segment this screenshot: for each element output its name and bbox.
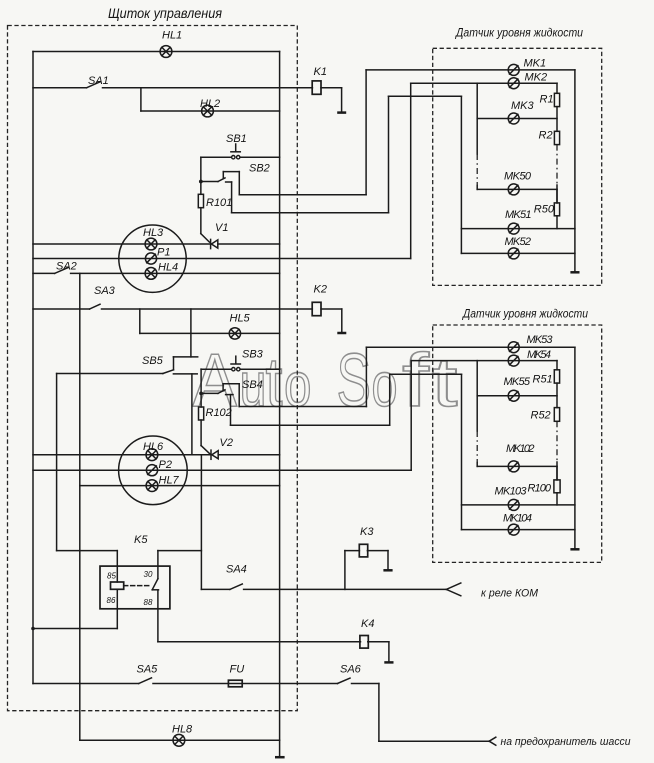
wire: R52 to MK102 row (dash-dot) (556, 421, 558, 480)
lamp MK51 (508, 223, 519, 234)
svg-text:SB2: SB2 (249, 162, 270, 174)
svg-text:o: o (372, 351, 398, 420)
svg-text:30: 30 (144, 570, 153, 579)
svg-text:P1: P1 (157, 247, 170, 259)
pushbutton SB1 (201, 144, 280, 159)
svg-text:MK102: MK102 (506, 443, 535, 455)
svg-text:Датчик уровня жидкости: Датчик уровня жидкости (454, 26, 583, 40)
svg-text:R2: R2 (539, 130, 553, 142)
svg-text:HL5: HL5 (230, 313, 251, 325)
svg-text:K2: K2 (314, 284, 327, 296)
wire: SA3 row to SB5 upper contact (190, 309, 192, 357)
svg-text:85: 85 (107, 572, 116, 581)
svg-text:HL7: HL7 (159, 475, 180, 487)
ground (sensor 1) (570, 271, 579, 274)
lamp HL2 (202, 105, 214, 117)
wire: SB2 upper contact to sensor 1 (MK1) (239, 70, 575, 195)
instrument cluster circle 2 (119, 436, 188, 505)
svg-text:f: f (402, 338, 429, 422)
lamp MK102 (508, 461, 519, 472)
diode V2 (201, 446, 218, 460)
svg-text:88: 88 (144, 598, 153, 607)
lamp MK104 (508, 524, 519, 535)
svg-text:HL3: HL3 (143, 227, 164, 239)
svg-text:R50: R50 (534, 204, 555, 216)
wire: MK55 row (477, 395, 557, 397)
ground (K4) (384, 661, 393, 664)
svg-text:86: 86 (107, 596, 116, 605)
svg-text:Датчик уровня жидкости: Датчик уровня жидкости (461, 307, 588, 321)
switch SA3 (33, 304, 312, 309)
lamp MK1 (508, 64, 519, 75)
wire: HL2 branch (141, 88, 280, 111)
changeover pushbutton SB5 (57, 357, 198, 374)
pushbutton SB3 (201, 356, 280, 371)
resistor R1 (554, 83, 559, 131)
dashed enclosure: Датчик уровня жидкости 2 (433, 325, 602, 562)
svg-text:SA2: SA2 (56, 261, 77, 273)
lamp MK2 (508, 78, 519, 89)
wire: sensor 2 left rail (476, 361, 478, 467)
svg-text:K3: K3 (360, 526, 374, 538)
svg-text:SB1: SB1 (226, 133, 247, 145)
svg-text:R100: R100 (528, 483, 552, 495)
wire: SA2 vertical (to HL7 and HL8) (79, 273, 81, 740)
lamp HL8 (173, 734, 185, 746)
wire: MK104 row (462, 529, 575, 531)
fuse FU (228, 680, 242, 687)
wire: MK103 row (462, 504, 575, 506)
ground (bottom of right bus) (275, 756, 285, 759)
lamp MK52 (508, 248, 519, 259)
svg-text:MK104: MK104 (503, 513, 532, 525)
wire: MK52 row (461, 252, 575, 254)
wire: MK102 row (477, 465, 557, 467)
svg-text:SA1: SA1 (88, 75, 109, 87)
svg-text:MK51: MK51 (505, 209, 532, 221)
wire: HL1 row (33, 51, 280, 53)
wire: SB4 lower contact to sensor 2 (MK103/MK104) (231, 374, 462, 529)
dashed enclosure: Датчик уровня жидкости 1 (433, 48, 602, 285)
wire: SB4 upper contact to sensor 2 (MK53) (239, 347, 575, 406)
lamp MK53 (508, 342, 519, 353)
wire: SB3 to SB4 vertical (200, 369, 202, 393)
svg-text:R52: R52 (531, 410, 551, 422)
svg-text:SA4: SA4 (226, 563, 247, 575)
changeover pushbutton SB4 (199, 384, 239, 425)
resistor R51 (554, 361, 559, 408)
wire: HL7 row (80, 485, 280, 487)
svg-text:P2: P2 (159, 459, 172, 471)
svg-text:MK55: MK55 (504, 376, 531, 388)
ground (K1) (337, 111, 346, 114)
instrument cluster circle 1 (119, 225, 186, 292)
svg-text:MK2: MK2 (525, 72, 548, 84)
wire: MK51 row (461, 228, 575, 230)
wire: SB2 lower contact to sensor 1 (MK51/MK52) (232, 96, 462, 253)
watermark AutoSoft (193, 338, 458, 422)
lamp HL7 (146, 480, 158, 492)
relay K5 dashed link (124, 585, 151, 587)
resistor R52 (554, 408, 559, 422)
svg-text:на предохранитель шасси: на предохранитель шасси (501, 736, 631, 748)
wire: R2 to MK50 row (dash-dot) (556, 145, 558, 203)
svg-text:MK54: MK54 (527, 349, 551, 361)
wire: HL8 row (80, 739, 280, 741)
gauge P2 (146, 465, 157, 476)
svg-text:t: t (432, 343, 458, 421)
resistor R2 (554, 131, 559, 144)
wire: HL3 row (33, 243, 280, 245)
svg-text:R51: R51 (533, 374, 553, 386)
wire: P1 row (to sensor 1 MK2) (33, 83, 557, 258)
svg-text:SA5: SA5 (137, 664, 159, 676)
svg-text:K5: K5 (134, 534, 148, 546)
svg-text:R1: R1 (540, 94, 554, 106)
relay coil K3 (345, 544, 388, 589)
svg-text:R101: R101 (206, 197, 232, 209)
lamp MK50 (508, 184, 519, 195)
svg-text:SB3: SB3 (242, 349, 264, 361)
lamp MK3 (508, 113, 519, 124)
svg-text:MK53: MK53 (527, 334, 554, 346)
relay coil K1 (312, 81, 341, 112)
switch SA1 (33, 82, 312, 88)
svg-text:MK3: MK3 (511, 100, 535, 112)
svg-text:V1: V1 (215, 222, 228, 234)
wire: HL5 branch (140, 309, 280, 333)
svg-text:FU: FU (230, 664, 245, 676)
svg-text:K1: K1 (314, 66, 327, 78)
resistor R102 (199, 393, 204, 445)
svg-text:к реле КОМ: к реле КОМ (481, 588, 539, 600)
svg-text:MK50: MK50 (504, 171, 532, 183)
switch SA5 (33, 678, 338, 684)
wire: P2 row (to sensor 2 MK54) (33, 361, 557, 471)
wire: MK50 row (477, 188, 557, 190)
svg-text:HL4: HL4 (158, 262, 178, 274)
svg-text:MK1: MK1 (524, 58, 547, 70)
lamp MK54 (508, 355, 519, 366)
relay K5 contact (152, 579, 158, 590)
lamp MK55 (508, 390, 519, 401)
wire: SB5 lower contact to HL6 row (191, 374, 193, 455)
svg-text:V2: V2 (220, 437, 233, 449)
wire: right return bus (279, 52, 281, 757)
wire: MK3 row (477, 118, 557, 120)
lamp HL5 (229, 328, 240, 339)
relay coil K2 (312, 302, 342, 332)
wire: SB1 to SB2 vertical (200, 157, 202, 181)
lamp MK103 (508, 499, 519, 510)
diode V1 (201, 234, 218, 249)
wire: SA6 to chassis fuse arrow (379, 684, 489, 742)
svg-text:HL2: HL2 (200, 98, 220, 110)
lamp HL3 (145, 238, 157, 250)
changeover pushbutton SB2 (199, 172, 239, 213)
svg-text:K4: K4 (361, 618, 374, 630)
svg-text:HL8: HL8 (172, 723, 193, 735)
wire: K5 pin 88 to K4 (158, 591, 361, 642)
wire: sensor 1 right rail (574, 70, 576, 271)
wire: SB5 common to K5 pin 85 (57, 374, 118, 583)
wire: HL6 row down to SA4 / K5 pin 30 (200, 455, 202, 590)
arrow: к реле КОМ (446, 583, 461, 596)
svg-text:SA6: SA6 (340, 664, 362, 676)
svg-text:HL6: HL6 (143, 441, 164, 453)
svg-text:Щиток управления: Щиток управления (108, 6, 222, 21)
arrow: на предохранитель шасси (489, 737, 496, 745)
gauge P1 (145, 253, 156, 264)
switch SA6 (338, 678, 379, 683)
svg-text:MK52: MK52 (505, 236, 532, 248)
svg-text:SA3: SA3 (94, 285, 116, 297)
switch SA4 (201, 584, 446, 589)
svg-text:R102: R102 (206, 407, 232, 419)
svg-text:SB5: SB5 (142, 355, 164, 367)
wire: HL6 row (33, 454, 280, 456)
resistor R100 (554, 466, 560, 505)
relay K5 coil (111, 582, 124, 589)
wire: sensor 2 right rail (574, 347, 576, 548)
relay K5 box (100, 566, 170, 609)
svg-text:SB4: SB4 (242, 379, 263, 391)
relay coil K4 (360, 636, 389, 662)
wire: K5 pin 30 feed (158, 551, 202, 579)
ground (K3) (383, 569, 392, 572)
lamp HL1 (160, 46, 172, 58)
resistor R50 (554, 189, 559, 228)
lamp HL6 (146, 449, 158, 461)
svg-text:MK103: MK103 (495, 486, 528, 498)
lamp HL4 (145, 268, 157, 280)
resistor R101 (198, 182, 203, 234)
ground (K2) (337, 332, 346, 335)
wire: sensor 1 left rail (476, 83, 478, 189)
wire: left supply bus (32, 52, 34, 684)
svg-text:HL1: HL1 (162, 30, 182, 42)
switch SA2 (33, 267, 280, 273)
dashed enclosure: Щиток управления (8, 26, 298, 711)
ground (sensor 2) (570, 548, 579, 551)
wire: K5 pin 86 to left bus (31, 589, 117, 630)
